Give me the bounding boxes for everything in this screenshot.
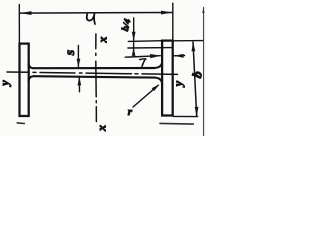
b dimension extension bottom bbox=[173, 115, 197, 117]
right flange bbox=[162, 41, 173, 116]
svg-text:r: r bbox=[128, 106, 133, 118]
svg-text:y: y bbox=[0, 80, 11, 88]
r leader arrowhead bbox=[152, 84, 160, 91]
page rule / border line right bbox=[203, 7, 205, 136]
left flange bbox=[20, 44, 29, 116]
h dimension extension line right (above right flange) bbox=[172, 3, 174, 40]
b dimension extension top bbox=[173, 40, 203, 42]
r leader line bbox=[133, 85, 158, 107]
web top edge bbox=[34, 67, 154, 69]
svg-text:s: s bbox=[63, 49, 78, 56]
t left-pointing arrowhead bbox=[173, 54, 183, 58]
fillet bottom-right bbox=[155, 78, 162, 85]
t right-pointing arrowhead bbox=[150, 54, 161, 58]
b dim arrow top bbox=[192, 42, 196, 52]
svg-text:x: x bbox=[95, 37, 109, 44]
fillet top-right bbox=[154, 62, 162, 68]
stray rule bottom right bbox=[160, 122, 193, 125]
up arrowhead at L2 bbox=[132, 48, 136, 56]
t dimension right tail with left arrow bbox=[174, 55, 185, 57]
y axis (horizontal dash-dot) bbox=[7, 72, 178, 74]
fillet bottom-left bbox=[29, 76, 34, 81]
stray dash bottom left bbox=[17, 122, 24, 125]
h dim arrow right bbox=[161, 11, 172, 15]
b/4 down arrowhead bbox=[132, 32, 136, 41]
svg-text:x: x bbox=[94, 125, 108, 132]
s dimension up arrow bbox=[78, 77, 80, 92]
b/4 line L2 bbox=[128, 47, 173, 49]
h dimension line bbox=[20, 12, 172, 15]
t dimension line (left part) with right arrow bbox=[125, 56, 160, 58]
x axis (vertical dash-dot) bbox=[95, 34, 98, 122]
svg-text:y: y bbox=[171, 80, 185, 88]
s dimension down arrow bbox=[77, 45, 79, 67]
label t (7-like) bbox=[140, 59, 146, 67]
b/4 arrow line bbox=[133, 18, 135, 57]
b dimension line bbox=[193, 42, 197, 116]
h dimension extension line left bbox=[18, 5, 20, 44]
label h (handwritten ч-like) bbox=[87, 13, 95, 24]
b dim arrow bottom bbox=[195, 107, 199, 117]
web bottom edge bbox=[34, 76, 155, 77]
flange top edge extension L1 (b/4 reference) bbox=[128, 40, 162, 43]
fillet top-left bbox=[29, 63, 34, 68]
h dim arrow left bbox=[20, 11, 31, 15]
